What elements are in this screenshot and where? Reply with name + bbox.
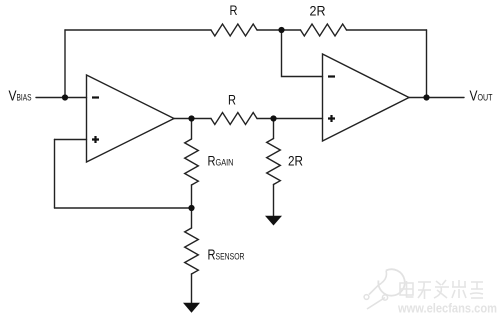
node N1 junction (top, between R and 2R) (278, 27, 284, 33)
wire bottom horizontal to node N4 (55, 207, 192, 209)
node N3 junction (R / 2R / U2+) (270, 115, 276, 121)
wire top feedback horizontal left (65, 29, 211, 31)
resistor R2 (top 2R) (301, 24, 347, 36)
node N2 junction (U1 output) (188, 115, 194, 121)
wire right vertical down to output node (426, 30, 428, 98)
svg-text:R: R (208, 247, 216, 264)
wire left vertical to bottom net (54, 140, 56, 209)
watermark logo circle (378, 269, 404, 295)
svg-text:GAIN: GAIN (216, 158, 234, 168)
wire node N2 down to RGAIN (191, 119, 193, 140)
wire R3 to U2 plus input (257, 118, 323, 120)
svg-text:2R: 2R (310, 3, 326, 19)
svg-text:R: R (230, 2, 238, 18)
op-amp U1 (87, 75, 175, 162)
wire U1 output to R3 (174, 118, 211, 120)
resistor RSENSOR (185, 228, 199, 274)
op-amp U2 (323, 54, 410, 141)
wire VBIAS input (36, 97, 87, 99)
U1 minus sign (92, 96, 99, 98)
wire R4 to ground (273, 185, 275, 217)
wire top feedback left vertical (64, 30, 66, 98)
node VOUT junction (423, 94, 429, 100)
resistor RGAIN (185, 139, 199, 185)
U1 plus sign (92, 136, 99, 143)
wire node N3 down to 2R vertical (273, 119, 275, 139)
svg-text:V: V (470, 88, 478, 105)
ground below 2R (265, 216, 282, 226)
svg-text:SENSOR: SENSOR (216, 252, 245, 262)
ground below RSENSOR (183, 303, 200, 313)
U2 plus sign (328, 115, 335, 122)
wire RGAIN to node N4 (191, 185, 193, 208)
svg-text:2R: 2R (288, 153, 303, 169)
watermark logo inner mark (367, 271, 387, 310)
watermark text chinese (drawn as glyph-like strokes) (400, 280, 483, 299)
node N4 junction (RGAIN / RSENSOR / bottom wire) (188, 205, 194, 211)
svg-text:R: R (208, 153, 216, 169)
resistor R3 (middle R) (211, 113, 257, 125)
svg-text:OUT: OUT (478, 93, 493, 103)
resistor R1 (top R) (211, 24, 257, 36)
wire RSENSOR to ground (191, 274, 193, 303)
svg-text:www.elecfans.com: www.elecfans.com (397, 301, 497, 316)
svg-text:R: R (228, 91, 236, 107)
wire U2 output to VOUT (409, 97, 464, 99)
node VBIAS junction (62, 94, 68, 100)
wire op-amp U1 plus input (55, 139, 87, 141)
wire node N1 down and into U2 minus input (282, 30, 323, 77)
resistor R4 (vertical 2R) (267, 139, 281, 185)
svg-text:V: V (9, 88, 17, 105)
wire node N4 down to RSENSOR (191, 208, 193, 228)
U2 minus sign (328, 75, 335, 77)
wire between R1 and node N1 (257, 29, 301, 31)
wire from R2 to right corner (347, 29, 427, 31)
svg-text:BIAS: BIAS (17, 93, 32, 103)
